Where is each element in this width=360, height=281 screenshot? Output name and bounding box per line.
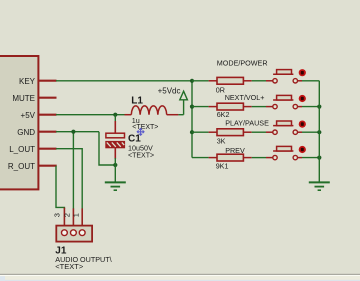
wire R_OUT net — [56, 166, 64, 209]
resistor R2 6K2 — [209, 106, 217, 108]
wire R4 to button — [252, 157, 266, 159]
svg-text:L_OUT: L_OUT — [9, 145, 35, 154]
svg-text:MODE/POWER: MODE/POWER — [217, 59, 268, 68]
wire R2 to button — [252, 106, 266, 108]
row 1 MODE/POWER — [190, 69, 319, 84]
wire button to right bus — [302, 80, 319, 82]
node row2 right junction — [317, 105, 321, 109]
svg-text:MUTE: MUTE — [12, 94, 35, 103]
node row2 left junction — [190, 105, 194, 109]
wire R1 to button — [252, 80, 266, 82]
node C1/ground junction — [113, 163, 117, 167]
J1 pin 3 lead — [63, 208, 65, 226]
node row3 right junction — [317, 130, 321, 134]
button SW4 — [266, 157, 273, 159]
J1 pin 2 lead — [72, 208, 74, 226]
button SW1 — [266, 80, 273, 82]
inductor L1 — [125, 106, 179, 115]
svg-text:KEY: KEY — [19, 77, 36, 86]
wire row3 to R3 — [192, 131, 209, 133]
wire button to right bus — [302, 131, 319, 133]
node row1 left junction — [190, 79, 194, 83]
svg-text:L1: L1 — [131, 96, 143, 107]
wire left bus vertical — [191, 81, 193, 158]
wire +5V net to L1 — [56, 114, 125, 116]
row 3 PLAY/PAUSE — [190, 121, 322, 136]
wire GND net jog down — [99, 132, 115, 165]
power +5Vdc arrow — [178, 91, 187, 115]
ground (under C1) — [105, 165, 126, 190]
svg-text:R_OUT: R_OUT — [8, 162, 35, 171]
svg-text:<TEXT>: <TEXT> — [132, 124, 158, 131]
button actuate marker — [299, 95, 306, 102]
resistor R1 0R — [209, 80, 217, 82]
wire row4 to R4 — [192, 157, 209, 159]
svg-text:3K: 3K — [217, 136, 226, 145]
pin stub +5V — [39, 114, 57, 116]
connector J1 — [53, 208, 93, 242]
svg-text:10u50V: 10u50V — [128, 144, 153, 153]
svg-text:<TEXT>: <TEXT> — [128, 152, 154, 159]
J1 pin 1 lead — [81, 208, 83, 226]
wire row2 to R2 — [192, 106, 209, 108]
button actuate marker — [299, 121, 306, 128]
button actuate marker — [299, 69, 306, 76]
wire row1 to R1 — [192, 80, 209, 82]
J1 body — [56, 226, 92, 242]
wire KEY net horizontal — [56, 80, 192, 82]
pin stub GND — [39, 131, 57, 133]
svg-text:PLAY/PAUSE: PLAY/PAUSE — [225, 119, 269, 128]
wire GND to J1 pin2 — [72, 132, 74, 209]
node row3 left junction — [190, 130, 194, 134]
svg-text:PREV: PREV — [225, 146, 245, 155]
svg-text:0R: 0R — [216, 86, 225, 95]
window bottom edge strip — [0, 274, 360, 275]
ground (right bus) — [309, 182, 330, 190]
wire button to right bus — [302, 157, 319, 159]
svg-text:3: 3 — [53, 213, 62, 217]
svg-text:+5Vdc: +5Vdc — [158, 86, 181, 95]
button actuate marker — [299, 146, 306, 153]
svg-text:<TEXT>: <TEXT> — [55, 262, 84, 271]
node GND/J1 junction — [71, 130, 75, 134]
pin stub KEY — [39, 80, 57, 82]
blue origin marker — [137, 128, 144, 135]
pin stub MUTE — [39, 97, 57, 99]
pin stub L_OUT — [39, 148, 57, 150]
resistor R4 9K1 — [209, 157, 217, 159]
wire right bus vertical — [318, 81, 320, 182]
svg-text:9K1: 9K1 — [216, 161, 229, 170]
wire GND net horizontal — [56, 131, 99, 133]
capacitor C1 — [106, 115, 125, 165]
button SW2 — [266, 106, 273, 108]
node +5V/C1 junction — [113, 113, 117, 117]
wire R3 to button — [252, 131, 266, 133]
wire button to right bus — [302, 106, 319, 108]
svg-text:1: 1 — [72, 213, 81, 217]
svg-text:2: 2 — [63, 213, 72, 217]
row 4 PREV — [192, 146, 321, 161]
svg-text:+5V: +5V — [21, 111, 36, 120]
svg-text:NEXT/VOL+: NEXT/VOL+ — [225, 93, 265, 102]
pin stub R_OUT — [39, 165, 57, 167]
button SW3 — [266, 131, 273, 133]
node row4 right junction — [317, 156, 321, 160]
wire L_OUT net — [56, 149, 82, 209]
row 2 NEXT/VOL+ — [190, 95, 322, 110]
svg-text:GND: GND — [17, 128, 35, 137]
resistor R3 3K — [209, 131, 217, 133]
IC U? box (left, clipped) — [0, 56, 38, 189]
